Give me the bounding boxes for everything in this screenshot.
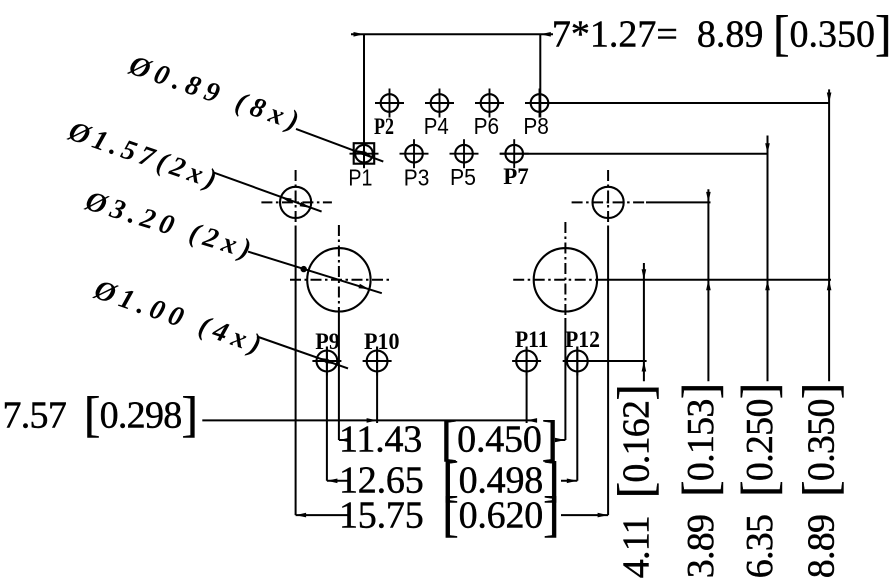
hole left diameter 1.57 xyxy=(280,187,311,218)
extension line left 3.20 hole down to 11.43 xyxy=(338,318,340,440)
centerline left 1.57 hole vertical (dash-dot) xyxy=(295,170,297,228)
arrow right of top dimension xyxy=(540,32,551,37)
centerline left 1.57 hole horizontal (dash-dot) xyxy=(261,201,332,203)
pad P1 xyxy=(355,145,373,163)
arrow left end 12.65 xyxy=(327,479,338,484)
dimension line 12.65 right stub xyxy=(561,480,577,482)
leader from 0.89 label to P1 xyxy=(296,129,383,162)
arrow at P8 row on 8.89 column xyxy=(827,93,832,104)
arrow right end 11.43 xyxy=(555,438,566,443)
pad P1 square xyxy=(354,143,375,164)
arrow at datum on 8.89 column xyxy=(827,280,832,291)
arrow left of top dimension xyxy=(354,32,365,37)
hole P12 xyxy=(567,351,588,372)
arrow far edge P9 xyxy=(326,359,337,365)
leader from P7 row to 6.35 column xyxy=(500,153,768,155)
pad P2 xyxy=(381,94,399,112)
arrow right end 12.65 xyxy=(567,479,578,484)
pad P4 xyxy=(431,94,449,112)
pad P6 xyxy=(481,94,499,112)
extension line P9 down to 12.65 xyxy=(326,347,328,481)
dimension line 15.75 right stub xyxy=(561,514,608,516)
dimension line 11.43 right stub xyxy=(555,439,565,441)
dimension line 8.89 vertical column xyxy=(828,89,830,381)
dimension line 4.11 vertical column xyxy=(643,263,645,381)
arrow far edge P1 xyxy=(361,150,372,156)
svg-text:3.89 [0.153]: 3.89 [0.153] xyxy=(671,383,727,578)
arrow left end 15.75 xyxy=(296,513,307,518)
centerline of right 1.57 hole to 3.89 column (dash-dot) xyxy=(572,201,646,203)
pad P5 xyxy=(455,145,473,163)
centerline right 1.57 hole vertical (dash-dot) xyxy=(607,170,609,228)
arrow at datum on 4.11 column xyxy=(642,269,647,280)
arrow right end 15.75 xyxy=(598,513,609,518)
dimension line 7.57 from text to P11 line xyxy=(202,419,537,421)
svg-text:P10: P10 xyxy=(364,329,400,354)
hole right diameter 1.57 xyxy=(593,187,624,218)
pad P7 xyxy=(505,145,523,163)
svg-text:6.35 [0.250]: 6.35 [0.250] xyxy=(731,383,787,578)
leader right 1.57 hole to 3.89 column xyxy=(646,201,711,203)
dimension line 12.65 left stub xyxy=(327,480,349,482)
svg-text:P3: P3 xyxy=(404,164,430,190)
leader from P12 to 4.11 column xyxy=(563,360,647,362)
leader from 1.57 label to left hole xyxy=(213,172,322,211)
dimension line 11.43 left stub xyxy=(339,439,349,441)
extension line from P8 up to top dimension xyxy=(539,34,541,117)
extension line P12 down to 12.65 xyxy=(576,347,578,481)
pad P3 xyxy=(405,145,423,163)
arrow at datum on 3.89 column xyxy=(706,280,711,291)
svg-text:P8: P8 xyxy=(523,113,549,139)
arrow far edge 1.57 hole xyxy=(300,202,311,208)
svg-text:7.57 [0.298]: 7.57 [0.298] xyxy=(3,386,198,442)
extension line right 3.20 hole down to 11.43 xyxy=(564,318,566,440)
dot near edge 3.20 hole xyxy=(301,266,307,272)
dimension line 6.35 vertical column xyxy=(767,136,769,382)
hole P9 xyxy=(317,351,338,372)
svg-text:P5: P5 xyxy=(450,164,476,190)
svg-text:P12: P12 xyxy=(565,327,600,352)
hole right diameter 3.20 xyxy=(534,248,597,311)
extension line P10 down to 7.57 xyxy=(376,347,378,424)
leader from 3.20 label to left hole xyxy=(248,252,382,294)
svg-text:P2: P2 xyxy=(374,114,394,139)
svg-text:P9: P9 xyxy=(315,329,340,354)
arrow at P10 line on 7.57 dimension xyxy=(367,418,378,423)
svg-text:P1: P1 xyxy=(348,164,372,190)
extension line from P1 up to top dimension xyxy=(363,34,365,167)
datum line from right 3.20 hole to 8.89 column xyxy=(601,279,831,281)
leader from 1.00 label to P9 xyxy=(257,337,348,369)
dimension line 3.89 vertical column xyxy=(707,189,709,381)
arrow at P7 row on 6.35 column xyxy=(765,143,770,154)
hole P10 xyxy=(367,351,388,372)
hole P11 xyxy=(516,351,537,372)
hole left diameter 3.20 xyxy=(307,248,370,311)
dimension line 15.75 left stub xyxy=(296,514,349,516)
pad P8 xyxy=(531,94,549,112)
svg-text:4.11 [0.162]: 4.11 [0.162] xyxy=(607,385,663,579)
arrow left end 11.43 xyxy=(339,438,350,443)
centerline right 3.20 hole vertical (dash-dot) xyxy=(564,222,566,318)
extension line right 1.57 hole down to 15.75 xyxy=(607,228,609,515)
svg-text:P7: P7 xyxy=(503,164,529,189)
dimension line 7*1.27=8.89 horizontal xyxy=(351,33,553,35)
datum centerline through right 3.20 hole (dash-dot) xyxy=(513,279,601,281)
svg-text:15.75 [0.620]: 15.75 [0.620] xyxy=(339,486,560,542)
centerline left 3.20 hole horizontal (dash-dot) xyxy=(290,279,391,281)
extension line left 1.57 hole down to 15.75 xyxy=(295,228,297,515)
arrow far edge 3.20 hole xyxy=(359,284,370,289)
arrow at hole row on 4.11 column xyxy=(642,361,647,372)
svg-text:7*1.27= 8.89 [0.350]: 7*1.27= 8.89 [0.350] xyxy=(552,5,892,61)
arrow near edge P9 xyxy=(317,358,328,364)
arrow near edge 1.57 hole xyxy=(281,197,292,203)
svg-text:P6: P6 xyxy=(474,113,500,139)
leader from P8 row to 8.89 column xyxy=(525,102,829,104)
svg-text:P4: P4 xyxy=(424,113,449,139)
arrow at 1.57 hole row on 3.89 column xyxy=(706,192,711,203)
arrow at P11 line on 7.57 dimension xyxy=(527,418,538,423)
svg-text:P11: P11 xyxy=(515,327,549,352)
arrow at datum on 6.35 column xyxy=(765,280,770,291)
centerline left 3.20 hole vertical (dash-dot) xyxy=(338,225,340,318)
arrow near edge P1 xyxy=(356,150,367,156)
svg-text:8.89 [0.350]: 8.89 [0.350] xyxy=(792,383,848,578)
extension line P11 down to 7.57 xyxy=(526,347,528,424)
